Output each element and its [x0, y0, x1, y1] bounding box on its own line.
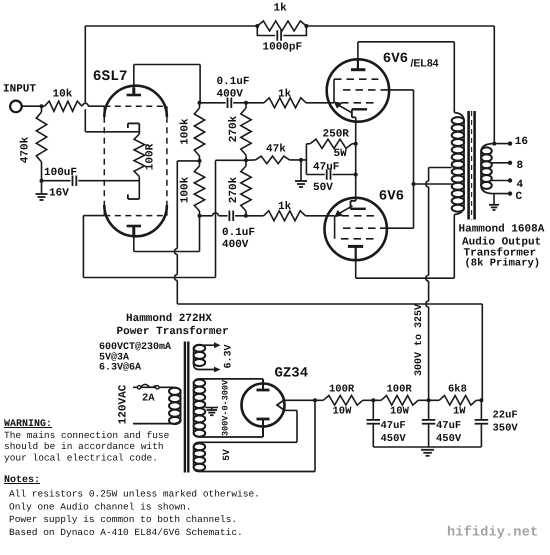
svg-text:250R: 250R: [323, 129, 350, 141]
svg-text:Hammond 1608A: Hammond 1608A: [459, 224, 545, 236]
svg-text:C: C: [516, 191, 523, 203]
svg-text:6k8: 6k8: [448, 384, 467, 396]
svg-text:0.1uF: 0.1uF: [217, 76, 250, 88]
svg-text:4: 4: [517, 179, 524, 191]
svg-text:6SL7: 6SL7: [93, 69, 128, 85]
svg-text:400V: 400V: [217, 88, 244, 100]
svg-text:6V6: 6V6: [383, 51, 408, 67]
svg-text:8: 8: [517, 160, 524, 172]
svg-text:All resistors 0.25W unless mar: All resistors 0.25W unless marked otherw…: [9, 489, 260, 500]
svg-text:2A: 2A: [142, 392, 155, 404]
svg-text:/EL84: /EL84: [411, 58, 439, 70]
svg-text:5V: 5V: [221, 449, 232, 461]
svg-text:450V: 450V: [381, 433, 407, 445]
svg-text:16V: 16V: [49, 187, 69, 199]
svg-text:10W: 10W: [333, 406, 353, 418]
svg-text:470k: 470k: [20, 136, 32, 163]
svg-text:INPUT: INPUT: [3, 84, 36, 96]
svg-text:270k: 270k: [228, 176, 240, 203]
svg-text:100R: 100R: [329, 384, 355, 396]
svg-text:10W: 10W: [390, 406, 410, 418]
svg-text:1k: 1k: [274, 3, 288, 15]
svg-text:100R: 100R: [387, 384, 413, 396]
svg-text:16: 16: [515, 136, 528, 148]
svg-text:1000pF: 1000pF: [263, 42, 303, 54]
svg-text:600VCT@230mA: 600VCT@230mA: [99, 341, 171, 353]
svg-text:(8k Primary): (8k Primary): [465, 258, 541, 270]
svg-text:47uF: 47uF: [381, 420, 406, 432]
svg-text:Hammond 272HX: Hammond 272HX: [126, 313, 212, 325]
svg-text:0.1uF: 0.1uF: [222, 227, 255, 239]
svg-text:100k: 100k: [180, 118, 192, 145]
svg-text:22uF: 22uF: [493, 410, 518, 422]
svg-text:hifidiy.net: hifidiy.net: [447, 526, 538, 541]
svg-text:1k: 1k: [278, 89, 292, 101]
svg-text:100R: 100R: [145, 143, 157, 170]
svg-text:47k: 47k: [266, 144, 286, 156]
svg-text:47uF: 47uF: [436, 420, 461, 432]
svg-text:270k: 270k: [228, 115, 240, 142]
svg-text:GZ34: GZ34: [275, 365, 309, 381]
svg-text:47uF: 47uF: [313, 161, 339, 173]
svg-text:Only one Audio channel is show: Only one Audio channel is shown.: [9, 501, 191, 512]
svg-text:10k: 10k: [53, 89, 73, 101]
svg-text:should be in accordance with: should be in accordance with: [4, 441, 164, 452]
svg-text:The mains connection and fuse: The mains connection and fuse: [4, 430, 170, 441]
svg-text:350V: 350V: [493, 423, 519, 435]
svg-text:5V@3A: 5V@3A: [99, 352, 129, 364]
svg-text:100uF: 100uF: [44, 167, 77, 179]
svg-text:5W: 5W: [334, 148, 348, 160]
svg-text:6.3V: 6.3V: [223, 344, 234, 368]
svg-text:WARNING:: WARNING:: [4, 419, 52, 430]
svg-text:300V to 325V: 300V to 325V: [414, 304, 425, 376]
svg-text:400V: 400V: [222, 239, 249, 251]
svg-text:Notes:: Notes:: [4, 475, 40, 486]
svg-text:300V-0-300V: 300V-0-300V: [221, 379, 231, 436]
svg-text:450V: 450V: [436, 433, 462, 445]
svg-text:50V: 50V: [313, 182, 333, 194]
svg-text:1k: 1k: [278, 201, 292, 213]
svg-text:Power supply is common to both: Power supply is common to both channels.: [9, 514, 237, 525]
svg-text:6.3V@6A: 6.3V@6A: [99, 362, 141, 374]
svg-text:your local electrical code.: your local electrical code.: [4, 453, 158, 464]
svg-text:120VAC: 120VAC: [118, 384, 130, 424]
svg-text:Audio Output: Audio Output: [462, 236, 541, 248]
svg-text:Power Transformer: Power Transformer: [117, 325, 229, 338]
svg-text:6V6: 6V6: [379, 188, 404, 204]
svg-text:Based on Dynaco A-410 EL84/6V6: Based on Dynaco A-410 EL84/6V6 Schematic…: [9, 527, 243, 538]
svg-text:1W: 1W: [453, 406, 466, 418]
svg-text:100k: 100k: [180, 176, 192, 203]
